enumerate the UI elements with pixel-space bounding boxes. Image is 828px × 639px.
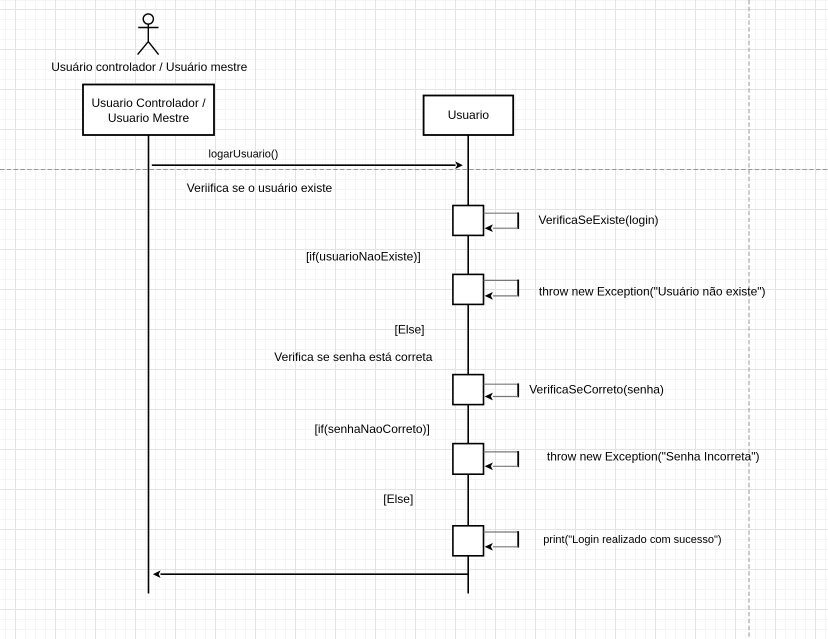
participant box right: [424, 96, 514, 136]
self message 1: [484, 212, 519, 214]
self message 4: [484, 451, 519, 453]
svg-text:[Else]: [Else]: [383, 492, 413, 506]
svg-text:Usuario Mestre: Usuario Mestre: [108, 111, 190, 125]
self message 2: [484, 279, 519, 281]
svg-text:VerificaSeExiste(login): VerificaSeExiste(login): [539, 213, 659, 227]
svg-text:logarUsuario(): logarUsuario(): [209, 148, 279, 160]
svg-text:[if(senhaNaoCorreto)]: [if(senhaNaoCorreto)]: [315, 422, 430, 436]
page break dashed vertical line: [748, 0, 750, 639]
activation box 5: [453, 526, 484, 556]
activation box 2: [453, 274, 484, 304]
svg-text:[if(usuarioNaoExiste)]: [if(usuarioNaoExiste)]: [306, 249, 421, 263]
page break dashed horizontal line: [0, 169, 828, 171]
svg-text:throw new Exception("Senha Inc: throw new Exception("Senha Incorreta"): [547, 450, 760, 464]
svg-text:Usuario Controlador /: Usuario Controlador /: [91, 96, 206, 110]
actor stick figure: [138, 14, 159, 55]
lifeline right: [467, 135, 469, 594]
lifeline left: [148, 135, 150, 594]
activation box 4: [453, 444, 484, 475]
svg-text:Veriifica se o usuário existe: Veriifica se o usuário existe: [187, 181, 333, 195]
svg-text:Verifica se senha está correta: Verifica se senha está correta: [274, 350, 432, 364]
svg-text:print("Login realizado com suc: print("Login realizado com sucesso"): [543, 534, 721, 546]
svg-text:[Else]: [Else]: [394, 322, 424, 336]
self message 3: [484, 383, 519, 385]
svg-text:throw new Exception("Usuário n: throw new Exception("Usuário não existe"…: [539, 284, 766, 298]
activation box 1: [453, 206, 484, 236]
message logarUsuario() arrow: [152, 164, 456, 166]
return message arrow: [161, 573, 469, 575]
svg-text:Usuario: Usuario: [448, 108, 490, 122]
svg-text:Usuário controlador / Usuário: Usuário controlador / Usuário mestre: [51, 60, 247, 74]
participant box left: [83, 85, 214, 136]
self message 5: [484, 531, 519, 533]
activation box 3: [453, 375, 484, 405]
svg-text:VerificaSeCorreto(senha): VerificaSeCorreto(senha): [529, 383, 664, 397]
